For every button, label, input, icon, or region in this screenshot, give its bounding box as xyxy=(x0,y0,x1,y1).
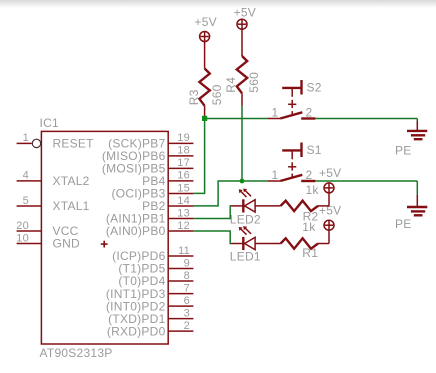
svg-text:XTAL1: XTAL1 xyxy=(53,199,90,213)
wire net N6 vertical down to GND2 xyxy=(416,181,418,195)
+5V supply symbol P1 (R3) xyxy=(195,15,217,42)
svg-text:6: 6 xyxy=(184,295,190,307)
svg-text:20: 20 xyxy=(16,220,29,232)
pin 19 (SCK)PB7 xyxy=(108,132,193,150)
svg-text:R1: R1 xyxy=(302,246,318,260)
pin 13 (AIN1)PB1 xyxy=(106,207,194,225)
svg-text:+5V: +5V xyxy=(195,15,217,29)
pin 1 RESET xyxy=(17,132,95,150)
pin 8 (T0)PD4 xyxy=(118,270,193,288)
svg-text:7: 7 xyxy=(184,282,190,294)
svg-text:19: 19 xyxy=(177,132,190,144)
wire net N1 vertical junction down to PB3 xyxy=(193,119,204,194)
svg-text:1k: 1k xyxy=(306,183,320,197)
ground symbol PE GND1 xyxy=(395,119,427,157)
svg-text:PE: PE xyxy=(395,144,412,158)
pin 2 (RXD)PD0 xyxy=(107,320,194,338)
junction N2 (dot) xyxy=(240,179,245,184)
svg-text:RESET: RESET xyxy=(53,137,95,151)
svg-text:R3: R3 xyxy=(187,89,201,105)
svg-text:17: 17 xyxy=(177,157,190,169)
svg-text:+5V: +5V xyxy=(234,6,256,20)
svg-text:2: 2 xyxy=(306,168,313,182)
svg-text:1: 1 xyxy=(272,168,279,182)
pin 11 (ICP)PD6 xyxy=(112,245,193,263)
+5V supply symbol P4 (R1) xyxy=(319,204,341,232)
resistor R1 1k xyxy=(281,220,329,260)
svg-text:+5V: +5V xyxy=(319,166,341,180)
svg-text:LED2: LED2 xyxy=(230,212,261,226)
wire net N2 junction to PB2 xyxy=(193,181,242,206)
svg-text:560: 560 xyxy=(210,84,224,105)
wire net N5 corner at GND1 xyxy=(416,119,418,122)
svg-text:LED1: LED1 xyxy=(230,249,261,263)
switch S1 xyxy=(268,143,322,183)
svg-text:1: 1 xyxy=(23,132,29,144)
wire net N3 PB1 to LED2 cathode xyxy=(193,206,230,219)
pin 5 XTAL1 xyxy=(17,195,90,213)
LED LED1 xyxy=(230,226,281,263)
wire net N5 S2 pin 2 to PE GND1 xyxy=(315,118,417,120)
pin 4 XTAL2 xyxy=(17,170,90,188)
pin 6 (INT0)PD2 xyxy=(106,295,193,313)
wire net N2 vertical R4 down to junction xyxy=(241,106,243,181)
IC1 value anchor cross xyxy=(101,241,108,248)
ground symbol PE GND2 xyxy=(395,195,427,231)
+5V supply symbol P2 (R4) xyxy=(234,6,256,31)
pin 16 PB4 xyxy=(142,170,193,188)
junction N1 (square) xyxy=(202,116,207,121)
pin 9 (T1)PD5 xyxy=(118,257,193,275)
svg-text:1: 1 xyxy=(272,106,279,120)
svg-text:560: 560 xyxy=(247,72,261,93)
svg-text:10: 10 xyxy=(16,232,29,244)
pin 12 (AIN0)PB0 xyxy=(106,220,194,238)
svg-text:3: 3 xyxy=(184,307,190,319)
svg-text:(AIN0)PB0: (AIN0)PB0 xyxy=(106,224,166,238)
svg-text:15: 15 xyxy=(177,182,190,194)
pin 15 (OCI)PB3 xyxy=(111,182,193,200)
svg-text:2: 2 xyxy=(184,320,190,332)
pin 3 (TXD)PD1 xyxy=(108,307,193,325)
svg-text:2: 2 xyxy=(306,106,313,120)
wire net N4 PB0 to LED1 cathode xyxy=(193,231,230,244)
resistor R2 1k xyxy=(281,183,329,224)
svg-text:16: 16 xyxy=(177,170,190,182)
svg-text:12: 12 xyxy=(177,220,190,232)
IC IC1 body xyxy=(41,131,168,344)
svg-text:IC1: IC1 xyxy=(40,116,60,130)
svg-text:1k: 1k xyxy=(302,220,316,234)
svg-text:S2: S2 xyxy=(307,81,322,95)
svg-text:4: 4 xyxy=(23,170,29,182)
switch S2 xyxy=(268,80,322,120)
pin 7 (INT1)PD3 xyxy=(106,282,193,300)
pin 14 PB2 xyxy=(142,195,193,213)
svg-text:8: 8 xyxy=(184,270,190,282)
svg-text:18: 18 xyxy=(177,145,190,157)
resistor R4 560 xyxy=(224,30,261,106)
svg-text:13: 13 xyxy=(177,207,190,219)
svg-text:9: 9 xyxy=(184,257,190,269)
LED LED2 xyxy=(230,189,281,227)
pin 20 VCC xyxy=(16,220,78,238)
svg-text:GND: GND xyxy=(53,237,81,251)
svg-text:AT90S2313P: AT90S2313P xyxy=(40,346,113,360)
svg-text:11: 11 xyxy=(178,245,190,257)
svg-text:PE: PE xyxy=(395,217,412,231)
svg-text:(RXD)PD0: (RXD)PD0 xyxy=(107,324,166,338)
wire net N2 junction to S1 pin 1 xyxy=(242,180,268,182)
pin 17 (MOSI)PB5 xyxy=(102,157,193,175)
+5V supply symbol P3 (R2) xyxy=(319,166,341,194)
pin 18 (MISO)PB6 xyxy=(102,145,193,163)
svg-text:R4: R4 xyxy=(224,77,238,93)
svg-text:5: 5 xyxy=(23,195,29,207)
wire net N6 S1 pin 2 to PE GND2 xyxy=(315,180,417,182)
svg-text:14: 14 xyxy=(177,195,190,207)
pin 10 GND xyxy=(16,232,80,250)
wire net N1 horizontal R3-junction to S2 pin 1 xyxy=(205,118,268,120)
resistor R3 560 xyxy=(187,42,224,118)
svg-text:S1: S1 xyxy=(307,143,322,157)
svg-text:XTAL2: XTAL2 xyxy=(53,174,90,188)
